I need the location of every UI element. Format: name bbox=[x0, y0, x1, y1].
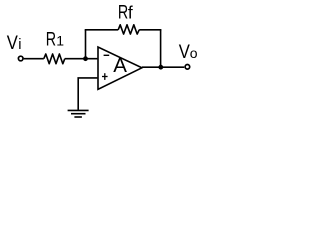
op-amp plus sign bbox=[102, 76, 108, 78]
label R1 bbox=[46, 27, 56, 50]
node junction dot at output bbox=[158, 65, 163, 70]
ground bbox=[68, 109, 89, 111]
wire feedback vertical right bbox=[160, 30, 162, 67]
node junction dot at inverting input bbox=[83, 56, 88, 61]
svg-text:i: i bbox=[18, 37, 21, 53]
svg-text:f: f bbox=[128, 2, 133, 22]
label A bbox=[113, 54, 127, 77]
label Vi bbox=[7, 31, 19, 54]
wire feedback top rail left bbox=[85, 29, 119, 31]
wire non-inverting input bbox=[78, 78, 97, 110]
wire R1 to op-amp inverting input bbox=[65, 58, 98, 60]
resistor R1 bbox=[44, 54, 65, 64]
svg-text:1: 1 bbox=[56, 33, 64, 49]
wire op-amp output bbox=[142, 66, 184, 68]
svg-text:R: R bbox=[46, 27, 56, 50]
label Rf bbox=[118, 0, 128, 23]
svg-text:R: R bbox=[118, 0, 128, 23]
node Vi input terminal bbox=[18, 56, 23, 61]
svg-text:o: o bbox=[190, 45, 198, 61]
wire feedback top rail right bbox=[139, 29, 161, 31]
wire input to R1 bbox=[24, 58, 44, 60]
svg-text:A: A bbox=[113, 54, 127, 77]
op-amp U1 triangle bbox=[98, 47, 142, 89]
label Vo bbox=[179, 39, 191, 62]
op-amp minus sign bbox=[104, 54, 110, 56]
svg-text:V: V bbox=[7, 31, 19, 54]
node Vo output terminal bbox=[185, 65, 190, 70]
resistor Rf bbox=[118, 25, 139, 34]
wire feedback vertical left bbox=[85, 30, 87, 59]
